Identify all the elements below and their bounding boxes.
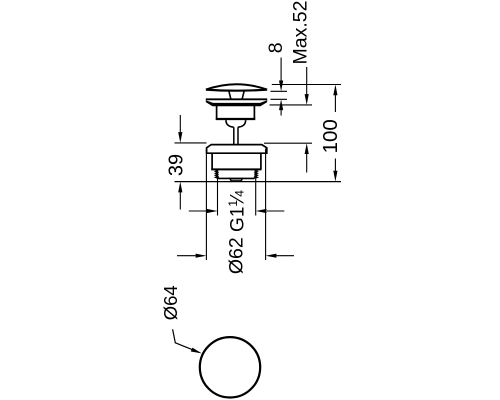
extension line flange 62 right	[265, 149, 267, 261]
svg-text:Ø64: Ø64	[160, 285, 181, 320]
shoulder taper to rod	[226, 120, 246, 127]
cap top view circle	[200, 337, 260, 397]
extension line gasket underside	[270, 104, 313, 106]
upper body cylinder	[217, 106, 255, 119]
bottom tab	[230, 179, 243, 181]
svg-text:39: 39	[166, 154, 188, 176]
upper body bottom edge	[216, 118, 256, 120]
lower body flange	[207, 145, 267, 154]
thread section with serrations	[215, 170, 257, 178]
dim 39 line with arrows	[178, 115, 182, 210]
dim G1quarter line with arrows	[189, 209, 284, 213]
leader line for dia 64	[173, 329, 199, 352]
stem neck between cap and flange	[229, 91, 244, 99]
thread bottom edge	[218, 177, 256, 178]
extension tick flange top	[271, 98, 288, 100]
extension line body flange top right	[264, 142, 312, 144]
dim Max.52 line with arrows	[305, 67, 309, 173]
dim 100 line with arrows	[333, 85, 337, 182]
extension line G thread left	[217, 178, 219, 216]
extension line body flange top left	[175, 142, 207, 144]
extension line flange 62 left	[205, 149, 207, 261]
dim 62 line with arrows	[177, 254, 294, 258]
lower body cylinder	[212, 154, 261, 169]
extension line G thread right	[255, 178, 257, 216]
leader arrowhead	[191, 348, 202, 354]
extension tick cap underside	[271, 90, 288, 92]
connecting rod	[234, 127, 238, 144]
svg-text:8: 8	[265, 42, 287, 53]
lower body bottom edge	[211, 168, 261, 170]
bottom reference line	[175, 181, 342, 183]
svg-text:Max.52: Max.52	[290, 1, 312, 65]
top flange disc	[206, 98, 267, 100]
svg-text:100: 100	[319, 119, 342, 153]
cap dome (side view)	[206, 84, 267, 91]
gasket (black seal under flange)	[206, 100, 267, 106]
top extension line (cap apex level)	[272, 84, 341, 86]
svg-text:Ø62: Ø62	[225, 237, 247, 274]
dim 8 line upper with arrow	[279, 58, 283, 116]
